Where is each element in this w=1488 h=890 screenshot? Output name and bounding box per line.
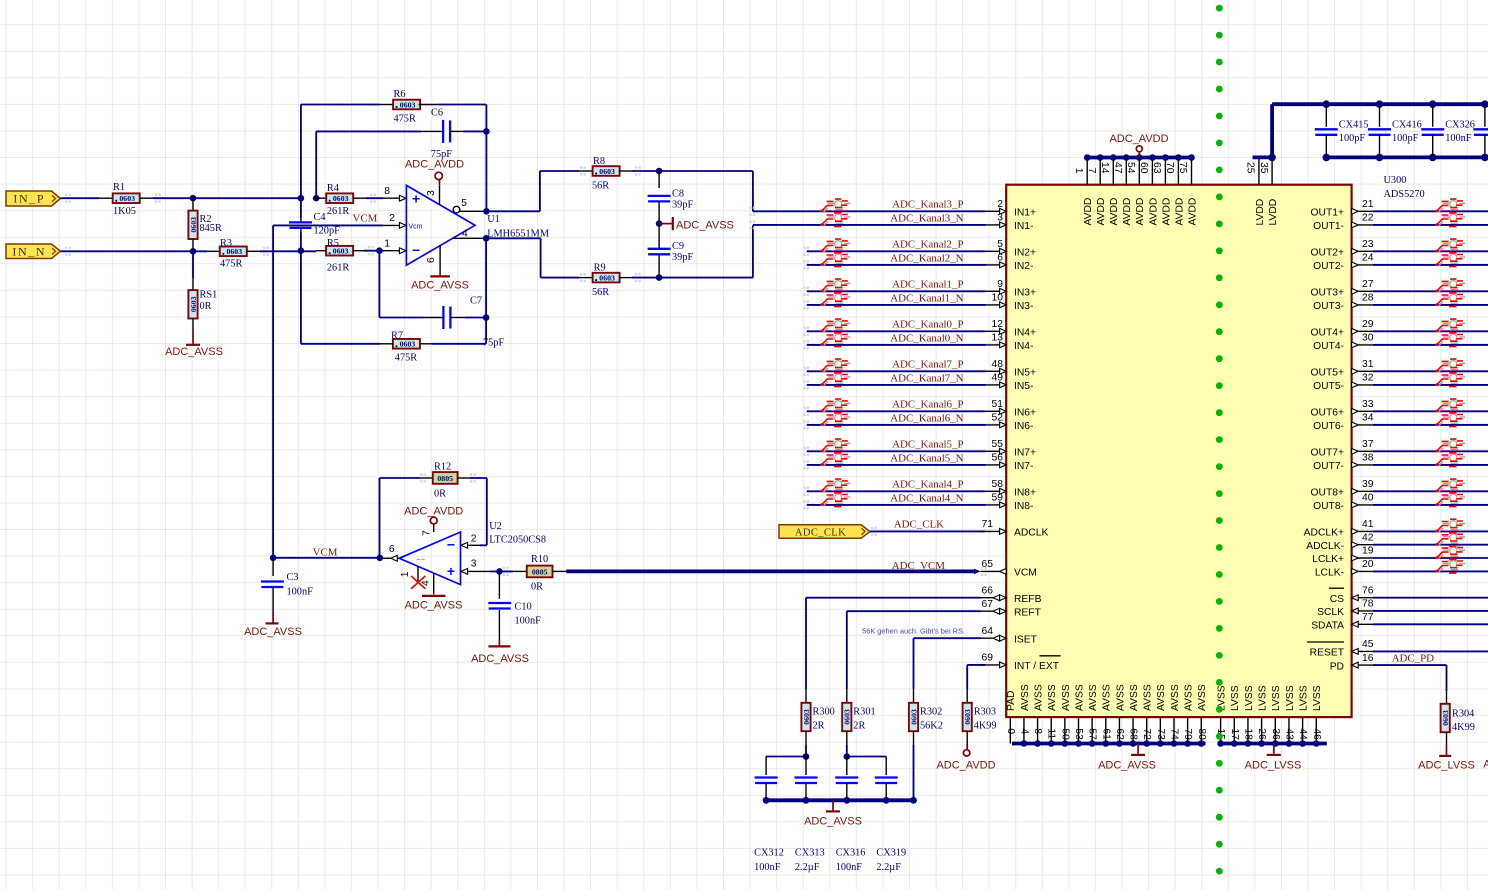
svg-text:ADC_Kanal3_P: ADC_Kanal3_P [892, 199, 963, 211]
wire ADC_Kanal6_P [807, 410, 986, 412]
svg-text:77: 77 [1362, 612, 1374, 623]
svg-text:21: 21 [1362, 199, 1374, 210]
svg-text:56R: 56R [592, 181, 609, 192]
svg-text:ADCLK: ADCLK [1014, 528, 1048, 539]
svg-text:IN6-: IN6- [1014, 421, 1033, 432]
svg-text:261R: 261R [327, 206, 349, 217]
svg-text:27: 27 [1362, 279, 1374, 290]
capacitor CX319 [885, 757, 887, 776]
svg-text:0805: 0805 [532, 567, 548, 576]
svg-text:475R: 475R [395, 353, 417, 364]
wire ADC_Kanal7_N [807, 384, 986, 386]
diff pair mark OUT4- [1435, 333, 1465, 347]
U300 pin 33 OUT6+ [1352, 410, 1373, 412]
diff pair mark ADC_Kanal6_N [820, 413, 850, 427]
svg-text:AVSS: AVSS [1047, 684, 1058, 711]
svg-text:10: 10 [992, 293, 1004, 304]
svg-text:CX319: CX319 [876, 847, 906, 858]
svg-text:0603: 0603 [189, 217, 198, 233]
svg-text:4K99: 4K99 [974, 721, 997, 732]
LVSS ground bus [1221, 742, 1327, 746]
U300 pin 56 IN7- [986, 464, 1000, 466]
svg-text:IN1+: IN1+ [1014, 208, 1036, 219]
svg-text:C7: C7 [470, 296, 482, 307]
svg-text:2: 2 [997, 199, 1003, 210]
svg-text:AVDD: AVDD [1161, 198, 1172, 226]
svg-text:AVSS: AVSS [1143, 684, 1154, 711]
power ADC_AVSS below U2 [422, 595, 445, 597]
pin 2 stub [383, 224, 400, 226]
U300 pin 11 AVSS [1050, 717, 1052, 743]
svg-text:R3: R3 [220, 238, 232, 249]
svg-text:22: 22 [1362, 213, 1374, 224]
junction loop/node A [298, 195, 305, 202]
svg-text:ADC_Kanal4_N: ADC_Kanal4_N [890, 492, 963, 504]
capacitor C4 [289, 221, 312, 223]
diff pair mark OUT8+ [1435, 479, 1465, 493]
svg-text:0603: 0603 [963, 709, 972, 725]
overline RESET [1307, 641, 1344, 643]
U300 pin 2 IN1+ [986, 210, 1000, 212]
resistor RS1 [192, 278, 194, 290]
U300 pin 46 LVSS [1315, 717, 1317, 743]
port ADC_CLK [779, 525, 870, 539]
svg-text:ADC_Kanal7_P: ADC_Kanal7_P [892, 359, 963, 371]
svg-text:28: 28 [1362, 293, 1374, 304]
svg-text:ADC_LVSS: ADC_LVSS [1418, 760, 1475, 772]
diff pair mark OUT6+ [1435, 399, 1465, 413]
U300 pin 63 AVDD [1164, 158, 1166, 185]
svg-text:45: 45 [1362, 639, 1374, 650]
wire ADC_Kanal4_P [807, 490, 986, 492]
svg-text:ADC_CLK: ADC_CLK [795, 528, 846, 539]
svg-text:OUT4-: OUT4- [1313, 341, 1344, 352]
svg-text:13: 13 [992, 333, 1004, 344]
svg-text:AD: AD [1483, 759, 1488, 771]
svg-text:64: 64 [982, 626, 994, 637]
resistor R6 [301, 104, 380, 106]
junction C9 bottom [656, 274, 663, 281]
op-amp U1 LMH6551MM [406, 185, 475, 265]
diff pair mark LCLK- [1435, 559, 1465, 573]
svg-text:AVDD: AVDD [1135, 198, 1146, 226]
svg-text:36: 36 [1270, 728, 1281, 740]
svg-text:46: 46 [1311, 728, 1322, 740]
capacitor C7 [423, 317, 443, 319]
power ADC_AVDD above U1 [435, 172, 442, 179]
junction loop/node B [298, 247, 305, 254]
op-amp U2 LTC2050CS8 [399, 532, 460, 585]
resistor R300 [805, 689, 807, 703]
diff pair mark ADCLK- [1435, 533, 1465, 547]
svg-text:0603: 0603 [1441, 710, 1450, 726]
U300 pin 15 LVSS [1220, 717, 1222, 743]
svg-text:AVSS: AVSS [1033, 684, 1044, 711]
wire SDATA [1373, 623, 1488, 625]
wire ADC_Kanal6_N [807, 424, 986, 426]
svg-text:261R: 261R [327, 263, 349, 274]
svg-text:100nF: 100nF [287, 587, 314, 598]
page boundary green dotted line [1216, 5, 1223, 875]
svg-text:34: 34 [1362, 413, 1374, 424]
wire OUT7+ [1373, 450, 1488, 452]
svg-text:R6: R6 [394, 89, 406, 100]
svg-text:43: 43 [1283, 728, 1294, 740]
svg-text:IN7-: IN7- [1014, 461, 1033, 472]
wire INT/EXT to R303 [966, 665, 968, 689]
svg-text:C10: C10 [515, 601, 532, 612]
svg-text:2R: 2R [813, 721, 825, 732]
wire R8 to corner [632, 170, 753, 172]
wire R6 to output node [438, 104, 487, 106]
diff pair mark ADC_Kanal0_N [820, 333, 850, 347]
svg-text:25: 25 [1245, 162, 1256, 174]
svg-text:ADCLK+: ADCLK+ [1304, 528, 1344, 539]
wire SCLK [1373, 610, 1488, 612]
svg-text:U300: U300 [1384, 175, 1407, 186]
svg-text:AVSS: AVSS [1102, 684, 1113, 711]
IC U300 ADS5270 body [1006, 185, 1351, 717]
wire ADC_Kanal1_P [807, 290, 986, 292]
U300 pin 24 OUT2- [1352, 264, 1373, 266]
svg-text:3: 3 [471, 559, 477, 570]
svg-text:C6: C6 [431, 108, 443, 119]
svg-text:ADC_AVDD: ADC_AVDD [936, 760, 995, 772]
svg-text:56R: 56R [592, 287, 609, 298]
svg-text:−: − [447, 537, 455, 553]
svg-text:6: 6 [426, 257, 437, 263]
U300 pin 34 OUT6- [1352, 424, 1373, 426]
svg-text:4: 4 [462, 228, 468, 239]
svg-text:0603: 0603 [333, 194, 349, 203]
svg-text:−: − [412, 242, 420, 258]
wire OUT4- [1373, 344, 1488, 346]
diff pair mark ADC_Kanal5_N [820, 453, 850, 467]
svg-text:62: 62 [1114, 728, 1125, 740]
svg-text:26: 26 [1256, 728, 1267, 740]
U300 pin 51 IN6+ [986, 410, 1000, 412]
diff pair mark ADC_Kanal2_P [820, 239, 850, 253]
wire ADC_Kanal1_N [807, 304, 986, 306]
LVDD bus riser [1270, 104, 1274, 157]
U2 pin 3 stub [461, 570, 469, 572]
power ADC_AVDD above U2 [430, 517, 437, 524]
U300 pin 43 LVSS [1288, 717, 1290, 743]
junction C10 [496, 568, 503, 575]
U300 pin 42 ADCLK- [1352, 544, 1373, 546]
diff pair mark OUT4+ [1435, 319, 1465, 333]
svg-text:LTC2050CS8: LTC2050CS8 [489, 534, 546, 545]
wire R2 to RS1 [192, 251, 194, 278]
capacitor C6 [315, 131, 317, 198]
svg-text:8: 8 [384, 186, 390, 197]
wire feedback loop left vertical [300, 105, 302, 219]
capacitor CX316 [846, 757, 848, 776]
wire ADC_Kanal2_P [807, 250, 986, 252]
wire LCLK+ [1373, 557, 1488, 559]
diff pair mark ADC_Kanal7_P [820, 359, 850, 373]
power ADC_AVDD above U300 [1138, 153, 1140, 158]
power ADC_AVSS below C3 [272, 611, 274, 623]
svg-text:OUT2+: OUT2+ [1311, 248, 1344, 259]
wire ADC_Kanal4_N [807, 504, 986, 506]
svg-text:AVSS: AVSS [1115, 684, 1126, 711]
svg-text:120pF: 120pF [314, 226, 341, 237]
U300 pin 28 OUT3- [1352, 304, 1373, 306]
wire pin3 to R10 [490, 570, 513, 572]
diff pair mark LCLK+ [1435, 546, 1465, 560]
U300 pin 58 IN8+ [986, 490, 1000, 492]
svg-text:80: 80 [1196, 728, 1207, 740]
svg-text:AVDD: AVDD [1148, 198, 1159, 226]
U300 pin 19 LCLK+ [1352, 557, 1373, 559]
wire R301 to cap rail [846, 745, 848, 757]
capacitor CX313 [805, 757, 807, 776]
U300 pin 14 AVDD [1112, 158, 1114, 185]
wire OUT8+ [1373, 490, 1488, 492]
svg-text:50: 50 [1059, 728, 1070, 740]
svg-text:R5: R5 [327, 238, 339, 249]
U300 pin 59 IN8- [986, 504, 1000, 506]
svg-text:ADC_Kanal2_N: ADC_Kanal2_N [890, 252, 963, 264]
U300 pin 54 AVDD [1138, 158, 1140, 185]
svg-text:42: 42 [1362, 532, 1374, 543]
svg-text:2: 2 [389, 213, 395, 224]
svg-text:OUT7+: OUT7+ [1311, 448, 1344, 459]
svg-text:37: 37 [1362, 439, 1374, 450]
svg-text:71: 71 [982, 519, 994, 530]
svg-text:ADC_AVSS: ADC_AVSS [804, 815, 862, 827]
svg-text:475R: 475R [394, 113, 416, 124]
U300 pin 35 LVDD [1271, 157, 1273, 184]
svg-text:AVSS: AVSS [1170, 684, 1181, 711]
svg-text:LVSS: LVSS [1244, 685, 1255, 711]
svg-text:7: 7 [1086, 168, 1097, 174]
svg-text:RS1: RS1 [200, 289, 218, 300]
wire ADC_Kanal3_P [753, 210, 986, 212]
diff pair mark OUT3+ [1435, 279, 1465, 293]
U300 pin 21 OUT1+ [1352, 210, 1373, 212]
power ADC_LVSS below U300 [1273, 744, 1275, 754]
svg-text:ADC_Kanal4_P: ADC_Kanal4_P [892, 479, 963, 491]
svg-text:AVDD: AVDD [1109, 198, 1120, 226]
svg-text:OUT5+: OUT5+ [1311, 368, 1344, 379]
svg-text:IN5+: IN5+ [1014, 368, 1036, 379]
svg-text:74: 74 [1168, 728, 1179, 740]
svg-text:LVSS: LVSS [1312, 685, 1323, 711]
wire ADC_Kanal5_P [807, 450, 986, 452]
power ADC_AVSS mid filter [659, 223, 673, 225]
junction R12/U2 output [377, 555, 384, 562]
svg-text:IN3+: IN3+ [1014, 288, 1036, 299]
svg-text:PD: PD [1330, 661, 1344, 672]
svg-text:SDATA: SDATA [1311, 621, 1344, 632]
wire ISET to R302 [913, 638, 915, 689]
wire ADCLK- [1373, 544, 1488, 546]
svg-text:AVSS: AVSS [1129, 684, 1140, 711]
svg-text:AVDD: AVDD [1187, 198, 1198, 226]
svg-text:1K05: 1K05 [113, 206, 136, 217]
U300 pin 39 OUT8+ [1352, 490, 1373, 492]
svg-text:100nF: 100nF [1445, 133, 1472, 144]
resistor R304 [1446, 691, 1448, 704]
diff pair mark OUT1+ [1435, 199, 1465, 213]
U300 pin 77 SDATA [1352, 623, 1373, 625]
svg-text:LVDD: LVDD [1255, 199, 1266, 226]
U300 pin 40 OUT8- [1352, 504, 1373, 506]
diff pair mark ADC_Kanal6_P [820, 399, 850, 413]
LVDD bottom rail [1324, 155, 1488, 159]
capacitor CX415 [1323, 100, 1331, 108]
svg-text:78: 78 [1362, 599, 1374, 610]
junction R1/R2 [190, 195, 197, 202]
svg-text:0603: 0603 [119, 194, 135, 203]
U300 pin 44 LVSS [1302, 717, 1304, 743]
U300 pin 16 PD [1352, 664, 1373, 666]
svg-text:R302: R302 [920, 707, 942, 718]
U300 pin 68 AVSS [1132, 717, 1134, 743]
U300 pin 67 REFT [981, 610, 1007, 612]
wire OUT5- [1373, 384, 1488, 386]
junction C6/feedback [483, 128, 490, 135]
diff pair mark OUT2- [1435, 253, 1465, 267]
U300 pin 20 LCLK- [1352, 570, 1373, 572]
wire OUT5+ [1373, 370, 1488, 372]
resistor R10 [513, 570, 527, 572]
wire IN_P to R1 [61, 197, 100, 199]
svg-text:47: 47 [1112, 162, 1123, 174]
capacitor C10 [498, 571, 500, 599]
U1 output pin 5 bubble [453, 206, 460, 213]
svg-text:48: 48 [992, 359, 1004, 370]
svg-text:OUT4+: OUT4+ [1311, 328, 1344, 339]
svg-text:+: + [447, 563, 455, 579]
svg-text:7: 7 [422, 530, 433, 536]
LVDD top rail [1272, 102, 1488, 106]
diff pair mark OUT8- [1435, 493, 1465, 507]
svg-text:OUT2-: OUT2- [1313, 261, 1344, 272]
U300 pin 26 LVSS [1261, 717, 1263, 743]
svg-text:IN8-: IN8- [1014, 501, 1033, 512]
junction C6 left on node A [313, 195, 320, 202]
svg-text:OUT3-: OUT3- [1313, 301, 1344, 312]
power ADC_AVSS ground bus [832, 800, 834, 810]
U300 pin 57 AVSS [1091, 717, 1093, 743]
svg-text:35: 35 [1258, 162, 1269, 174]
svg-text:56K gehen auch. Gibt's bei RS.: 56K gehen auch. Gibt's bei RS. [862, 627, 965, 636]
svg-text:VCM: VCM [1014, 568, 1037, 579]
wire OUT1+ [1373, 210, 1488, 212]
resistor R302 [913, 689, 915, 703]
svg-text:1: 1 [1073, 168, 1084, 174]
svg-text:0603: 0603 [802, 709, 811, 725]
port IN_N [6, 244, 61, 259]
svg-text:0805: 0805 [437, 474, 453, 483]
svg-text:ISET: ISET [1014, 634, 1038, 645]
wire REFB to R300 [805, 598, 807, 689]
svg-text:LVDD: LVDD [1268, 199, 1279, 226]
U300 pin 80 AVSS [1200, 717, 1202, 743]
U300 pin 10 IN3- [986, 304, 1000, 306]
svg-text:AVSS: AVSS [1088, 684, 1099, 711]
U300 pin 79 AVSS [1187, 717, 1189, 743]
svg-text:49: 49 [992, 373, 1004, 384]
svg-text:3: 3 [997, 213, 1003, 224]
wire cap rail right [847, 756, 886, 758]
svg-text:ADC_CLK: ADC_CLK [894, 519, 944, 531]
svg-text:0: 0 [1005, 728, 1016, 734]
svg-text:R10: R10 [531, 554, 548, 565]
diff pair mark OUT6- [1435, 413, 1465, 427]
svg-text:ADC_AVSS: ADC_AVSS [1098, 760, 1156, 772]
svg-text:12: 12 [992, 319, 1004, 330]
diff pair mark ADC_Kanal2_N [820, 253, 850, 267]
ground bus thick [763, 798, 913, 802]
svg-text:ADC_Kanal0_P: ADC_Kanal0_P [892, 319, 963, 331]
U300 pin 22 OUT1- [1352, 224, 1373, 226]
diff pair mark ADC_Kanal4_P [820, 479, 850, 493]
wire cap rail left [766, 756, 806, 758]
wire R12 left vertical [379, 478, 381, 558]
svg-text:0R: 0R [434, 489, 446, 500]
wire VCM to pin 2 [273, 224, 383, 226]
U300 pin 30 OUT4- [1352, 344, 1373, 346]
svg-text:∼∼: ∼∼ [416, 557, 426, 563]
svg-text:RESET: RESET [1310, 648, 1345, 659]
svg-text:70: 70 [1164, 162, 1175, 174]
U300 pin 66 REFB [981, 597, 1007, 599]
wire R1 to node A [153, 197, 301, 199]
wire R3 to R4 [260, 250, 316, 252]
wire output- to R9 [486, 237, 540, 239]
svg-text:23: 23 [1362, 239, 1374, 250]
U300 pin 29 OUT4+ [1352, 330, 1373, 332]
svg-text:73: 73 [1155, 728, 1166, 740]
svg-text:39pF: 39pF [672, 200, 693, 211]
wire ADCLK+ [1373, 530, 1488, 532]
svg-text:ADC_Kanal2_P: ADC_Kanal2_P [892, 239, 963, 251]
wire R4 to pin 8 [366, 197, 383, 199]
svg-text:R8: R8 [593, 156, 605, 167]
svg-text:4: 4 [1018, 728, 1029, 734]
wire ADC_Kanal2_N [807, 264, 986, 266]
svg-text:1: 1 [384, 239, 390, 250]
U2 pin 2 stub [468, 544, 480, 546]
junction R2/R3 [190, 248, 197, 255]
U300 pin 1 AVDD [1086, 158, 1088, 185]
svg-text:OUT1-: OUT1- [1313, 221, 1344, 232]
svg-text:CX313: CX313 [795, 847, 825, 858]
svg-text:56K2: 56K2 [920, 721, 943, 732]
U300 pin 52 IN6- [986, 424, 1000, 426]
svg-text:R300: R300 [813, 707, 835, 718]
wire R5 to pin 1 [364, 250, 383, 252]
U300 pin 70 AVDD [1177, 158, 1179, 185]
diff pair mark ADC_Kanal7_N [820, 373, 850, 387]
svg-text:67: 67 [982, 599, 994, 610]
svg-text:0603: 0603 [400, 100, 416, 109]
svg-text:0603: 0603 [189, 296, 198, 312]
svg-text:ADC_AVSS: ADC_AVSS [244, 626, 302, 638]
svg-text:OUT8+: OUT8+ [1311, 488, 1344, 499]
svg-text:ADC_AVSS: ADC_AVSS [471, 653, 529, 665]
diff pair mark OUT5+ [1435, 359, 1465, 373]
svg-text:65: 65 [982, 559, 994, 570]
svg-text:2: 2 [471, 534, 477, 545]
U300 pin 76 CS [1352, 597, 1373, 599]
svg-text:LVSS: LVSS [1258, 685, 1269, 711]
svg-text:ADC_Kanal5_P: ADC_Kanal5_P [892, 439, 963, 451]
